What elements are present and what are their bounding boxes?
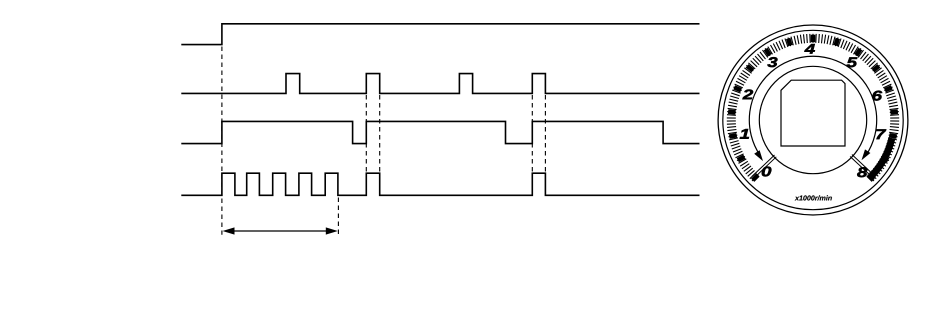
- dial numeral 3: [767, 57, 777, 67]
- dashed line pulse2 trail: [379, 95, 381, 172]
- dial numeral 7: [876, 129, 886, 139]
- dial numeral 1: [740, 129, 749, 139]
- dimension arrow burst width: [232, 230, 328, 232]
- wire row3 window signal: [181, 121, 699, 143]
- tachometer outer bezel circle: [718, 25, 908, 215]
- dashed line pulse4 lead: [531, 95, 533, 172]
- dial numeral 5: [847, 57, 858, 67]
- tachometer inner bezel circle: [723, 30, 903, 209]
- tachometer minor tick marks: [727, 34, 899, 181]
- needle sweep arc: [749, 56, 876, 155]
- wire row4 burst signal: [181, 173, 699, 195]
- dashed line event start: [221, 47, 223, 235]
- dashed line burst end: [337, 198, 339, 236]
- dial numeral 6: [872, 91, 882, 101]
- sweep arrowhead right at 8: [862, 149, 871, 160]
- dial inner circle: [759, 66, 866, 173]
- dial numeral 8: [857, 167, 867, 177]
- dashed line pulse4 trail: [544, 95, 546, 172]
- needle pointer at 0: [752, 155, 776, 178]
- label x1000r/min: [795, 195, 832, 200]
- needle pointer at 8: [850, 155, 875, 178]
- dial numeral 0: [762, 167, 772, 177]
- tachometer major tick marks: [728, 35, 898, 181]
- tachometer redline arc 7 to 8: [871, 138, 892, 176]
- sweep arrowhead left at 0: [754, 150, 763, 161]
- center display window: [781, 80, 845, 146]
- dashed line pulse2 lead: [365, 95, 367, 172]
- dial numeral 2: [743, 90, 754, 100]
- wire row2 pulse train: [181, 74, 699, 94]
- dial numeral 4: [804, 44, 815, 54]
- wire row1 gate signal: [181, 24, 699, 45]
